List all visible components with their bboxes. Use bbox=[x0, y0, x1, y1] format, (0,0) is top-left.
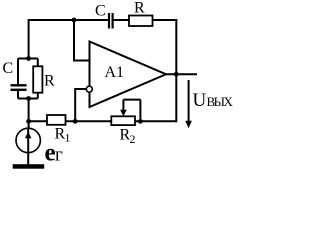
wire left vertical lower bbox=[28, 99, 30, 129]
wire R branch upper bbox=[37, 59, 39, 67]
svg-text:ВЫХ: ВЫХ bbox=[207, 94, 234, 109]
svg-text:R: R bbox=[44, 73, 55, 90]
wire C branch upper bbox=[17, 59, 19, 85]
node RC bottom bbox=[26, 96, 31, 101]
wire R1 to R2 bbox=[66, 120, 112, 122]
node RC top bbox=[26, 56, 31, 61]
wire C branch lower bbox=[17, 91, 19, 99]
wire C to R (top) bbox=[114, 19, 129, 21]
svg-text:U: U bbox=[193, 90, 207, 111]
wiper top bar bbox=[123, 99, 140, 101]
wire RC bottom bar bbox=[18, 98, 38, 100]
wire left vertical upper bbox=[28, 19, 30, 59]
wire to non-inverting input bbox=[74, 20, 89, 61]
resistor R (top) bbox=[129, 16, 153, 27]
resistor R (left) bbox=[33, 66, 42, 92]
wiper shaft bbox=[122, 100, 124, 111]
node inverting input bbox=[73, 119, 78, 124]
wiper right vertical bbox=[139, 100, 141, 122]
svg-text:C: C bbox=[95, 3, 106, 20]
svg-text:2: 2 bbox=[130, 132, 136, 146]
source arrow bbox=[25, 132, 32, 138]
node R2 right bbox=[138, 119, 143, 124]
svg-text:C: C bbox=[3, 60, 14, 77]
svg-text:г: г bbox=[55, 144, 63, 165]
svg-text:e: e bbox=[45, 140, 56, 167]
wire through source bbox=[27, 128, 29, 164]
wire R branch lower bbox=[37, 93, 39, 99]
inverting input circle bbox=[86, 86, 92, 92]
wire R2 to right vertical bbox=[135, 120, 176, 122]
resistor R1 bbox=[47, 115, 66, 125]
capacitor C (left) bbox=[11, 85, 27, 90]
resistor R2 bbox=[111, 116, 135, 125]
svg-text:R: R bbox=[134, 0, 145, 17]
wiper arrow R2 bbox=[120, 110, 127, 117]
svg-text:1: 1 bbox=[65, 131, 71, 145]
source e_g circle bbox=[16, 128, 40, 152]
node R1 left bbox=[26, 119, 31, 124]
svg-text:A1: A1 bbox=[105, 64, 125, 81]
node output junction bbox=[174, 72, 179, 77]
ground bbox=[13, 164, 45, 169]
wire output bbox=[166, 73, 197, 75]
node top junction bbox=[72, 18, 77, 23]
wire right vertical feedback bbox=[175, 19, 177, 122]
wire R1 left lead bbox=[29, 120, 47, 122]
capacitor C (top) bbox=[109, 13, 113, 29]
wire to inverting input bbox=[75, 89, 86, 121]
wire R to right corner bbox=[153, 19, 178, 21]
wire top-left horizontal bbox=[29, 19, 109, 21]
U_vyx arrow bbox=[185, 80, 192, 128]
op-amp A1 bbox=[90, 42, 167, 108]
wire RC top bar bbox=[18, 58, 38, 60]
